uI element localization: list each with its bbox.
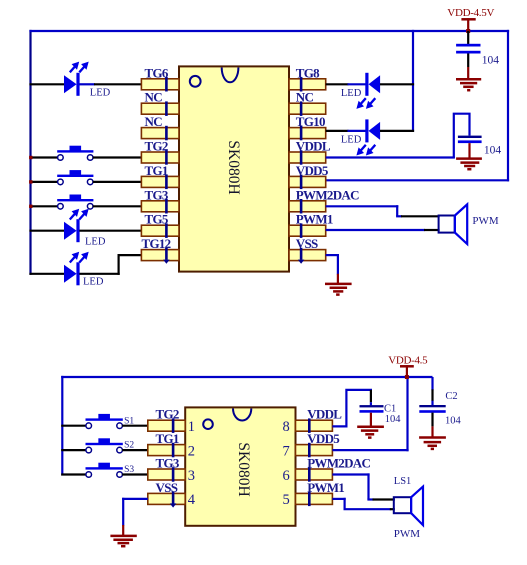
pin label TG1 (U1 left) [145, 163, 168, 178]
svg-text:VDD5: VDD5 [307, 431, 340, 446]
pin box VDD5 (U2 right) [296, 443, 333, 458]
wire: rail to switch S1 [61, 425, 86, 427]
pin label TG12 (U1 left) [142, 236, 171, 251]
pin label TG8 (U1 right) [296, 65, 320, 80]
pushbutton switch S-TG3 [57, 195, 93, 210]
wire: frame to LED D1 [29, 83, 64, 85]
wire: rail to switch S2 [61, 449, 86, 451]
wire: pin PWM1 to speaker LS1 [332, 498, 394, 509]
label LED (D2) [85, 236, 106, 247]
svg-text:LED: LED [90, 87, 111, 98]
wire: frame bottom to LED D3 [29, 273, 64, 275]
power symbol VDD-4.5V [461, 18, 475, 31]
label S3 [124, 465, 134, 475]
LED D4 (TG8 row) [356, 73, 380, 109]
pin number 1 (U2) [188, 419, 195, 435]
pin box PWM2DAC (U2 right) [296, 467, 333, 482]
pushbutton switch S1 [86, 414, 123, 429]
wire: pin TG10 to LED D5 [326, 130, 366, 132]
IC U2 SK080H body [185, 407, 295, 525]
wire: top-right frame vertical to VDD5 [507, 30, 509, 182]
pin label PWM1 (U2 right) [307, 480, 344, 495]
wire: switch S1 to pin [122, 425, 149, 427]
junction dot VDD [466, 29, 470, 33]
label LED (D5) [341, 135, 362, 146]
label LS1 [394, 476, 412, 487]
wire: pin TG8 to LED D4 [326, 83, 366, 85]
ground symbol (C4) [456, 79, 481, 90]
ground symbol (U2 VSS) [110, 536, 136, 546]
ground symbol (C2) [419, 438, 446, 449]
speaker LS1 horn [411, 487, 423, 525]
wire: frame to switch S-TG3 [29, 205, 58, 207]
svg-text:104: 104 [385, 414, 402, 425]
label PWM (LS2) [472, 215, 499, 227]
pin box TG3 (U1 left) [141, 199, 179, 214]
pin box NC (U1 left) [141, 101, 179, 116]
label S1 [124, 416, 134, 426]
junction dot at frame row S-TG3 [29, 205, 32, 208]
svg-text:LED: LED [83, 277, 104, 288]
wire: LED D5 to bus [380, 130, 414, 132]
svg-text:5: 5 [283, 492, 290, 508]
pin label VDDL (U2 right) [307, 407, 342, 422]
svg-text:3: 3 [188, 468, 195, 484]
svg-text:SK080H: SK080H [225, 140, 242, 194]
LED D5 (TG10 row) [356, 119, 380, 155]
pin label TG10 (U1 right) [296, 114, 325, 129]
pin box TG1 (U1 left) [141, 175, 179, 190]
pin box PWM1 (U1 right) [289, 223, 326, 238]
IC U1 part name SK080H [225, 140, 242, 194]
pin box TG5 (U1 left) [141, 223, 179, 238]
pin box PWM2DAC (U1 right) [289, 199, 326, 214]
pin box VSS (U2 left) [148, 492, 185, 508]
wire: switch S-TG3 to pin [93, 205, 142, 207]
svg-text:NC: NC [145, 114, 163, 129]
wire: switch S-TG1 to pin [93, 181, 142, 183]
pin label TG6 (U1 left) [145, 65, 169, 80]
wire: switch S3 to pin [122, 473, 149, 475]
speaker LS2 box [439, 216, 455, 233]
svg-text:LED: LED [341, 135, 362, 146]
pin box TG8 (U1 right) [289, 77, 326, 92]
IC U1 SK080H body [179, 66, 289, 271]
power label VDD-4.5V [447, 7, 494, 19]
wire: rail to switch S3 [61, 473, 86, 475]
label C2 [445, 391, 457, 402]
svg-text:104: 104 [445, 415, 462, 426]
svg-text:VDDL: VDDL [296, 139, 331, 154]
pin box TG2 (U1 left) [141, 150, 179, 165]
pin label VDDL (U1 right) [296, 139, 331, 154]
IC U2 notch [233, 409, 251, 421]
svg-text:TG2: TG2 [145, 139, 168, 154]
label S2 [124, 441, 134, 451]
pin box TG10 (U1 right) [289, 126, 326, 141]
wire: top frame horizontal (VDD rail) [29, 30, 509, 32]
pin label TG5 (U1 left) [145, 212, 169, 227]
pin label NC (U1 right) [296, 90, 314, 105]
pin box TG1 (U2 left) [148, 443, 185, 458]
wire: LED D4 to bus [380, 83, 414, 85]
svg-text:VDDL: VDDL [307, 407, 342, 422]
ground symbol (C3) [456, 159, 482, 170]
svg-text:VDD-4.5: VDD-4.5 [388, 354, 428, 366]
pin label TG3 (U2 left) [156, 456, 180, 471]
svg-text:PWM: PWM [472, 215, 499, 227]
svg-text:TG3: TG3 [156, 456, 180, 471]
LED D1 (TG6 row) [64, 62, 89, 96]
wire: pin PWM2DAC to speaker LS1 [332, 473, 394, 499]
label 104 (C1) [385, 414, 402, 425]
ground symbol (C1) [357, 427, 384, 438]
pin box NC (U1 left) [141, 126, 179, 141]
IC U2 part name SK080H [235, 442, 252, 496]
pin label TG1 (U2 left) [156, 431, 179, 446]
pin box TG12 (U1 left) [141, 248, 179, 264]
pin number 7 (U2) [283, 443, 290, 459]
pin label PWM2DAC (U2 right) [307, 456, 370, 471]
svg-text:TG1: TG1 [145, 163, 168, 178]
wire: LED D3 up to pin TG12 [79, 254, 142, 275]
pin number 3 (U2) [188, 468, 195, 484]
svg-text:TG10: TG10 [296, 114, 325, 129]
pin box NC (U1 right) [289, 101, 326, 116]
IC U1 notch [222, 68, 239, 83]
pin number 6 (U2) [283, 468, 290, 484]
junction dot VDD (bottom) [405, 375, 409, 379]
pin box VDDL (U2 right) [296, 418, 333, 433]
svg-text:PWM1: PWM1 [296, 212, 333, 227]
svg-text:PWM1: PWM1 [307, 480, 344, 495]
pin number 4 (U2) [188, 492, 196, 508]
wire: pin PWM1 to speaker LS2 [326, 229, 440, 231]
svg-text:VSS: VSS [156, 480, 178, 495]
pushbutton switch S-TG1 [57, 170, 93, 185]
ground symbol (U1 VSS) [325, 284, 352, 295]
pin label NC (U1 left) [145, 114, 163, 129]
label LED (D3) [83, 277, 104, 288]
pin box TG2 (U2 left) [148, 418, 185, 433]
svg-text:6: 6 [283, 468, 290, 484]
svg-text:NC: NC [145, 90, 163, 105]
svg-text:VSS: VSS [296, 236, 318, 251]
pin label PWM2DAC (U1 right) [296, 187, 359, 202]
pushbutton switch S3 [86, 463, 123, 478]
svg-text:TG1: TG1 [156, 431, 179, 446]
wire: frame to LED D2 [29, 230, 64, 232]
wire+capacitor C1 104 (VDDL bypass) [332, 390, 383, 427]
wire: right LED bus vertical [412, 30, 414, 132]
junction dot at frame row S-TG1 [29, 180, 32, 183]
svg-text:TG5: TG5 [145, 212, 169, 227]
label 104 (C4) [482, 55, 500, 67]
power symbol VDD-4.5 [400, 365, 414, 377]
wire: switch S-TG2 to pin [93, 156, 142, 158]
speaker LS2 horn [455, 204, 467, 244]
svg-text:7: 7 [283, 443, 290, 459]
wire: LED D2 to pin TG5 [79, 230, 142, 232]
label PWM (LS1) [394, 528, 421, 540]
wire: pin VDDL to capacitor C3 [326, 156, 455, 158]
IC U1 pin-1 marker circle [190, 76, 201, 87]
pin box VDD5 (U1 right) [289, 175, 326, 190]
svg-text:PWM: PWM [394, 528, 421, 540]
pin box VSS (U1 right) [289, 248, 326, 264]
svg-text:TG12: TG12 [142, 236, 171, 251]
svg-text:NC: NC [296, 90, 314, 105]
wire: top-left frame vertical [29, 30, 31, 275]
LED D2 (TG5 row) [64, 209, 89, 242]
junction dot at frame row S-TG2 [29, 156, 32, 159]
svg-text:C2: C2 [445, 391, 457, 402]
wire: pin VSS to ground [326, 254, 339, 284]
capacitor C3 104 (VDDL bypass) [454, 114, 482, 159]
svg-text:TG2: TG2 [156, 407, 179, 422]
pin label VDD5 (U1 right) [296, 163, 329, 178]
pin label TG2 (U1 left) [145, 139, 168, 154]
label 104 (C2) [445, 415, 462, 426]
svg-text:8: 8 [283, 419, 290, 435]
label C1 [384, 404, 396, 415]
pushbutton switch S2 [86, 438, 123, 453]
wire: pin PWM2DAC to speaker LS2 [326, 205, 440, 216]
svg-text:LED: LED [341, 88, 362, 99]
pin label NC (U1 left) [145, 90, 163, 105]
pin label PWM1 (U1 right) [296, 212, 333, 227]
pin label TG3 (U1 left) [145, 187, 169, 202]
pin box VDDL (U1 right) [289, 150, 326, 165]
svg-text:LED: LED [85, 236, 106, 247]
power label VDD-4.5 [388, 354, 428, 366]
pin label VDD5 (U2 right) [307, 431, 340, 446]
svg-text:LS1: LS1 [394, 476, 412, 487]
wire: frame to switch S-TG2 [29, 156, 58, 158]
wire: switch S2 to pin [122, 449, 149, 451]
wire: pin VSS (U2) to ground [122, 498, 148, 537]
capacitor C4 104 (VDD rail) [456, 31, 480, 79]
LED D3 (TG12 row) [64, 252, 89, 285]
pin box TG6 (U1 left) [141, 77, 179, 92]
pin number 8 (U2) [283, 419, 290, 435]
svg-text:4: 4 [188, 492, 196, 508]
svg-text:TG8: TG8 [296, 65, 320, 80]
speaker LS1 box [394, 497, 411, 513]
capacitor C2 104 [419, 377, 445, 438]
svg-text:TG6: TG6 [145, 65, 169, 80]
pin box TG3 (U2 left) [148, 467, 185, 482]
IC U2 pin-1 marker circle [203, 419, 213, 429]
wire: frame to switch S-TG1 [29, 181, 58, 183]
pin label VSS (U2 left) [156, 480, 178, 495]
pin number 2 (U2) [188, 443, 195, 459]
svg-text:2: 2 [188, 443, 195, 459]
label LED (D4) [341, 88, 362, 99]
pin box PWM1 (U2 right) [296, 492, 333, 507]
svg-text:TG3: TG3 [145, 187, 169, 202]
wire: bottom circuit left vertical [61, 376, 63, 476]
label 104 (C3) [484, 145, 502, 157]
pin label VSS (U1 right) [296, 236, 318, 251]
svg-text:PWM2DAC: PWM2DAC [307, 456, 370, 471]
pin label TG2 (U2 left) [156, 407, 179, 422]
svg-text:VDD-4.5V: VDD-4.5V [447, 7, 494, 19]
svg-text:104: 104 [482, 55, 500, 67]
wire: VDD5 row to right frame [326, 179, 509, 181]
wire: bottom circuit top rail [61, 376, 432, 378]
svg-text:1: 1 [188, 419, 195, 435]
svg-text:SK080H: SK080H [235, 442, 252, 496]
wire: pin VDD5 to VDD rail [332, 376, 408, 451]
svg-text:104: 104 [484, 145, 502, 157]
svg-text:PWM2DAC: PWM2DAC [296, 187, 359, 202]
pin number 5 (U2) [283, 492, 290, 508]
pushbutton switch S-TG2 [57, 146, 93, 161]
svg-text:VDD5: VDD5 [296, 163, 329, 178]
label LED (D1) [90, 87, 111, 98]
wire: LED D1 to pin TG6 [79, 83, 142, 85]
